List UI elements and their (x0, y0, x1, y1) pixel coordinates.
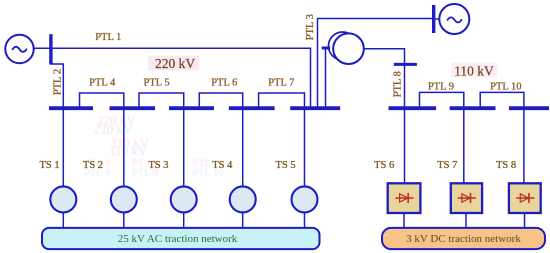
svg-text:TS 7: TS 7 (437, 160, 457, 171)
svg-text:PTL 5: PTL 5 (144, 78, 170, 89)
svg-text:PTL 2: PTL 2 (53, 69, 64, 95)
svg-text:PTL 8: PTL 8 (393, 71, 404, 97)
svg-text:PTL 1: PTL 1 (95, 32, 121, 43)
svg-text:PTL 9: PTL 9 (428, 81, 454, 92)
svg-text:PTL 3: PTL 3 (305, 14, 316, 40)
svg-text:TS 8: TS 8 (496, 160, 516, 171)
svg-text:PTL 6: PTL 6 (211, 78, 237, 89)
svg-text:PTL 10: PTL 10 (490, 81, 521, 92)
svg-text:TS 5: TS 5 (275, 160, 295, 171)
svg-text:TS 1: TS 1 (40, 160, 60, 171)
svg-text:110 kV: 110 kV (454, 63, 494, 78)
svg-text:110 kV: 110 kV (109, 143, 148, 158)
svg-text:25 kV AC traction network: 25 kV AC traction network (118, 233, 238, 245)
svg-text:TS 6: TS 6 (374, 160, 394, 171)
svg-text:PTL 7: PTL 7 (268, 78, 294, 89)
svg-text:220 kV: 220 kV (155, 56, 195, 71)
svg-text:TS 2: TS 2 (83, 160, 103, 171)
svg-text:TS 3: TS 3 (148, 160, 168, 171)
svg-text:PTL 4: PTL 4 (89, 78, 116, 89)
svg-text:TS 4: TS 4 (212, 160, 233, 171)
svg-text:3 kV DC traction network: 3 kV DC traction network (406, 233, 521, 245)
